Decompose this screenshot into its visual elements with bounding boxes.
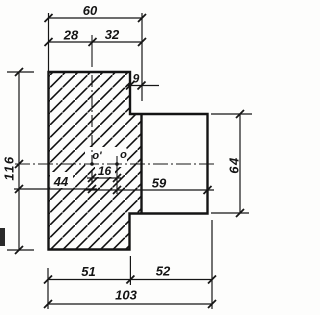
svg-text:28: 28 (63, 28, 79, 43)
horizontal center line (15, 163, 216, 165)
svg-text:o': o' (92, 150, 102, 162)
svg-text:51: 51 (81, 264, 95, 279)
svg-text:44: 44 (53, 174, 69, 189)
vertical axis o' (91, 35, 93, 67)
dimension 16 (87, 177, 121, 179)
svg-text:9: 9 (133, 72, 140, 86)
vertical axis o (116, 156, 118, 194)
dimension 60 (49, 13, 143, 101)
figure outline (49, 72, 208, 250)
dimension 9 (126, 85, 159, 87)
svg-text:116: 116 (2, 155, 17, 180)
svg-text:60: 60 (83, 3, 98, 18)
dimension 64 (211, 114, 252, 213)
divider line between hatched strip and right rectangle (140, 114, 142, 214)
dimension 116 (7, 72, 34, 250)
svg-text:103: 103 (115, 288, 137, 303)
node o dot (115, 162, 119, 166)
hatched section fill (49, 72, 142, 250)
dimension 59 (85, 189, 214, 191)
dimension 51 / 52 (48, 220, 212, 309)
dimension 103 (48, 303, 212, 305)
svg-text:o: o (120, 149, 127, 161)
svg-text:64: 64 (227, 156, 242, 173)
dimension 44 (14, 188, 97, 190)
svg-text:59: 59 (152, 176, 167, 191)
node o' dot (90, 162, 94, 166)
svg-text:32: 32 (105, 27, 120, 42)
svg-text:52: 52 (156, 264, 171, 279)
label halos over hatching (50, 147, 127, 188)
dimension 28 / 32 (49, 41, 143, 43)
svg-text:16: 16 (98, 164, 112, 178)
scan smudge left edge (0, 228, 5, 246)
